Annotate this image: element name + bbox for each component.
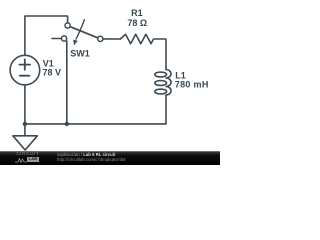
wire bottom rail <box>25 123 166 125</box>
svg-text:R1: R1 <box>131 8 143 18</box>
ground <box>13 136 38 150</box>
switch SW1 blade <box>70 27 98 38</box>
switch SW1 common terminal <box>98 36 103 41</box>
svg-text:SW1: SW1 <box>70 48 90 58</box>
wire switch bottom throw down to bottom rail <box>66 41 68 124</box>
svg-text:780 mH: 780 mH <box>175 80 209 90</box>
wire V1 bottom to ground node <box>24 85 26 124</box>
wire inductor bottom lead <box>165 95 167 124</box>
resistor R1 <box>120 34 166 69</box>
switch SW1 bottom throw terminal <box>62 36 67 41</box>
inductor L1 <box>166 70 171 96</box>
node junction at switch leg <box>65 122 69 126</box>
switch SW1 top throw terminal <box>65 23 70 28</box>
footer watermark bar <box>0 151 220 165</box>
wire switch common to resistor <box>103 38 120 40</box>
voltage source V1 <box>10 55 40 85</box>
node junction at ground <box>23 122 27 126</box>
switch SW1 actuator arrow <box>76 19 85 39</box>
wire top rail from V1 to switch top throw <box>25 16 68 55</box>
switch SW1 bottom throw stub <box>52 38 62 40</box>
svg-text:78 V: 78 V <box>43 68 62 78</box>
ground stem <box>24 124 26 136</box>
svg-text:78 Ω: 78 Ω <box>127 18 147 28</box>
